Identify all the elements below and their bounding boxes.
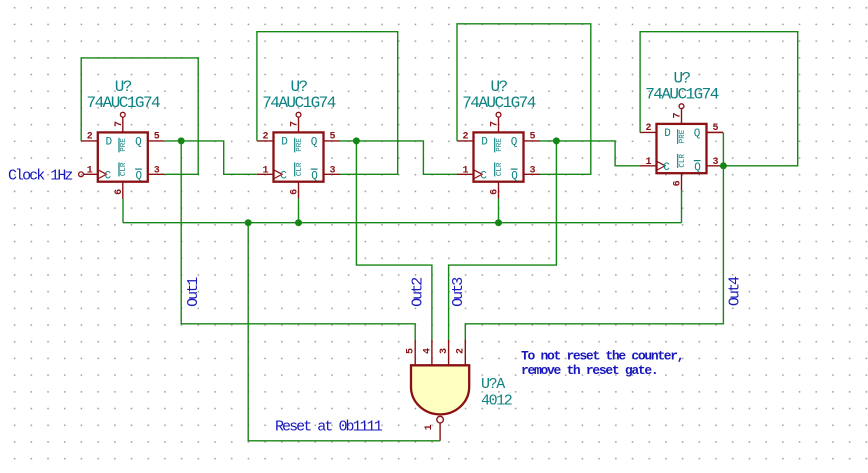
stage 3 pin 5 Q stub bbox=[524, 140, 541, 142]
FF1 pin 1 CLK with open end circle bbox=[79, 172, 84, 177]
svg-text:3: 3 bbox=[439, 348, 450, 354]
NAND input pin 4 stub bbox=[431, 340, 433, 366]
svg-text:Q: Q bbox=[135, 137, 142, 149]
svg-text:Out2: Out2 bbox=[410, 278, 427, 307]
stage 2 pin 6 CLR stub bbox=[298, 182, 300, 199]
svg-text:D: D bbox=[664, 128, 671, 140]
junction node FF1-Q bbox=[178, 137, 185, 144]
NAND input pin 2 stub bbox=[464, 340, 466, 366]
wire: FF4 Q down to Q̅ node bbox=[722, 132, 724, 165]
NAND input pin 3 stub bbox=[448, 340, 450, 366]
svg-text:3: 3 bbox=[154, 165, 160, 176]
svg-text:74AUC1G74: 74AUC1G74 bbox=[262, 94, 335, 112]
svg-text:2: 2 bbox=[456, 348, 467, 354]
svg-text:CLR: CLR bbox=[296, 162, 304, 176]
svg-text:1: 1 bbox=[424, 424, 435, 430]
junction node FF2-Q bbox=[353, 137, 360, 144]
svg-text:To not reset the counter,: To not reset the counter, bbox=[521, 348, 683, 363]
svg-text:PRE: PRE bbox=[679, 129, 687, 143]
wire Out1: FF1 Q to gate pin 5 bbox=[181, 141, 415, 340]
svg-text:Q: Q bbox=[694, 162, 701, 174]
svg-text:4012: 4012 bbox=[481, 393, 512, 410]
stage 1 body outline bbox=[98, 132, 148, 181]
junction node reset-CLR bbox=[245, 219, 252, 226]
stage 4 pin 6 CLR stub bbox=[681, 173, 683, 190]
stage 4 body outline bbox=[657, 124, 707, 173]
flip-flop U? 74AUC1G74 (stage 1) bbox=[81, 78, 164, 198]
stage 4 pin 2 D stub bbox=[640, 131, 657, 133]
stage 2 pin 3 Qbar stub bbox=[324, 173, 341, 175]
FF4 pin 5 stub bbox=[707, 131, 724, 133]
stage 1 pin 3 Qbar stub bbox=[148, 173, 165, 175]
wire: stage 2 feedback loop Q̅ to D bbox=[257, 32, 398, 175]
svg-text:6: 6 bbox=[490, 189, 501, 195]
svg-text:remove th reset gate.: remove th reset gate. bbox=[521, 363, 657, 378]
junction node FF3-CLR bbox=[495, 219, 502, 226]
stage 1 clock edge triangle bbox=[98, 170, 107, 179]
svg-text:7: 7 bbox=[673, 112, 684, 118]
stage 2 pin 7 PRE stub with bubble bbox=[298, 117, 300, 132]
svg-text:5: 5 bbox=[529, 132, 535, 143]
svg-text:74AUC1G74: 74AUC1G74 bbox=[87, 94, 160, 112]
stage 4 pin 5 Q stub bbox=[707, 131, 724, 133]
wire: reset from gate output to CLR bus bbox=[248, 223, 440, 441]
svg-text:C: C bbox=[480, 170, 487, 182]
svg-text:2: 2 bbox=[462, 132, 468, 143]
wire: CLR bus bbox=[123, 222, 682, 224]
NAND output stub pin 1 bbox=[439, 423, 441, 441]
wire: FF3 Q to FF4 CLK bbox=[539, 141, 640, 166]
svg-text:Q: Q bbox=[311, 137, 318, 149]
svg-text:3: 3 bbox=[529, 165, 535, 176]
stage 2 pin 5 Q stub bbox=[324, 140, 341, 142]
svg-text:C: C bbox=[280, 170, 287, 182]
wire: stage 4 feedback loop Q̅ to D bbox=[640, 32, 798, 166]
wire Out2: FF2 Q to gate pin 4 bbox=[356, 141, 432, 340]
svg-text:2: 2 bbox=[645, 123, 651, 134]
svg-text:D: D bbox=[105, 137, 112, 149]
svg-text:U?A: U?A bbox=[481, 376, 505, 393]
FF3 pin 1 CLK stub bbox=[457, 173, 474, 175]
svg-text:5: 5 bbox=[154, 132, 160, 143]
svg-text:7: 7 bbox=[290, 121, 301, 127]
svg-text:Clock 1Hz: Clock 1Hz bbox=[8, 168, 72, 185]
junction node FF4-out bbox=[720, 162, 727, 169]
NAND input pin 5 stub bbox=[414, 340, 416, 366]
stage 4 pin 3 Qbar stub bbox=[707, 165, 724, 167]
svg-text:7: 7 bbox=[114, 121, 125, 127]
stage 1 pin 7 PRE stub with bubble bbox=[122, 117, 124, 132]
svg-text:2: 2 bbox=[87, 132, 93, 143]
svg-text:3: 3 bbox=[329, 165, 335, 176]
stage 1 pin 5 Q stub bbox=[148, 140, 165, 142]
svg-text:PRE: PRE bbox=[120, 138, 128, 152]
svg-text:C: C bbox=[104, 170, 111, 182]
FF4 pin 1 CLK stub bbox=[640, 165, 657, 167]
svg-text:Out3: Out3 bbox=[450, 277, 467, 307]
svg-text:Q: Q bbox=[311, 171, 318, 183]
svg-text:6: 6 bbox=[290, 189, 301, 195]
flip-flop U? 74AUC1G74 (stage 4) bbox=[640, 70, 723, 190]
stage 2 body outline bbox=[274, 132, 324, 181]
svg-text:Out4: Out4 bbox=[727, 276, 744, 306]
svg-text:Q: Q bbox=[694, 128, 701, 140]
svg-text:7: 7 bbox=[490, 121, 501, 127]
NAND gate U?A 4012 body bbox=[411, 365, 469, 414]
wire: FF1 Q to FF2 CLK bbox=[165, 141, 257, 174]
svg-text:6: 6 bbox=[673, 180, 684, 186]
wire: FF2 CLR drop bbox=[298, 199, 300, 223]
svg-text:Reset at 0b1111: Reset at 0b1111 bbox=[275, 419, 383, 436]
stage 3 clock edge triangle bbox=[474, 170, 483, 179]
stage 3 pin 6 CLR stub bbox=[498, 182, 500, 199]
stage 3 pin 7 PRE stub with bubble bbox=[498, 117, 500, 132]
svg-text:Q: Q bbox=[135, 171, 142, 183]
svg-text:CLR: CLR bbox=[496, 162, 504, 176]
wire: stage 3 feedback loop Q̅ to D bbox=[457, 24, 591, 175]
FF2 pin 1 CLK stub bbox=[257, 173, 274, 175]
stage 1 pin 2 D stub bbox=[81, 140, 98, 142]
svg-text:5: 5 bbox=[329, 132, 335, 143]
svg-text:CLR: CLR bbox=[120, 162, 128, 176]
svg-text:Q: Q bbox=[511, 171, 518, 183]
stage 3 body outline bbox=[474, 132, 524, 181]
wire Out4: FF4 node to gate pin 2 bbox=[465, 166, 723, 340]
stage 4 clock edge triangle bbox=[657, 161, 666, 170]
svg-text:Out1: Out1 bbox=[185, 277, 202, 307]
svg-text:74AUC1G74: 74AUC1G74 bbox=[645, 86, 718, 104]
svg-text:D: D bbox=[281, 137, 288, 149]
svg-text:4: 4 bbox=[422, 348, 433, 354]
svg-text:Q: Q bbox=[511, 137, 518, 149]
wire: FF2 Q to FF3 CLK bbox=[339, 141, 457, 174]
junction node FF2-CLR bbox=[295, 219, 302, 226]
stage 3 pin 3 Qbar stub bbox=[524, 173, 541, 175]
stage 1 pin 6 CLR stub bbox=[122, 182, 124, 199]
wire Out3: FF3 Q to gate pin 3 bbox=[449, 141, 557, 340]
wire: FF1 CLR drop bbox=[122, 199, 124, 223]
junction node FF3-Q bbox=[553, 137, 560, 144]
svg-text:3: 3 bbox=[712, 157, 718, 168]
flip-flop U? 74AUC1G74 (stage 2) bbox=[257, 78, 340, 198]
svg-text:2: 2 bbox=[262, 132, 268, 143]
svg-text:74AUC1G74: 74AUC1G74 bbox=[462, 94, 535, 112]
flip-flop U? 74AUC1G74 (stage 3) bbox=[457, 78, 540, 198]
wire: FF3 CLR drop bbox=[498, 199, 500, 223]
svg-text:CLR: CLR bbox=[679, 154, 687, 168]
svg-text:5: 5 bbox=[406, 348, 417, 354]
svg-text:6: 6 bbox=[114, 189, 125, 195]
wire: FF4 CLR drop bbox=[681, 190, 683, 223]
svg-text:PRE: PRE bbox=[496, 138, 504, 152]
svg-text:C: C bbox=[663, 162, 670, 174]
svg-text:PRE: PRE bbox=[296, 138, 304, 152]
NAND output inversion bubble bbox=[437, 416, 444, 423]
stage 3 pin 2 D stub bbox=[457, 140, 474, 142]
stage 4 pin 7 PRE stub with bubble bbox=[681, 109, 683, 124]
stage 2 clock edge triangle bbox=[274, 170, 283, 179]
wire: stage 1 feedback loop Q̅ to D bbox=[81, 58, 198, 174]
svg-text:D: D bbox=[481, 137, 488, 149]
stage 2 pin 2 D stub bbox=[257, 140, 274, 142]
